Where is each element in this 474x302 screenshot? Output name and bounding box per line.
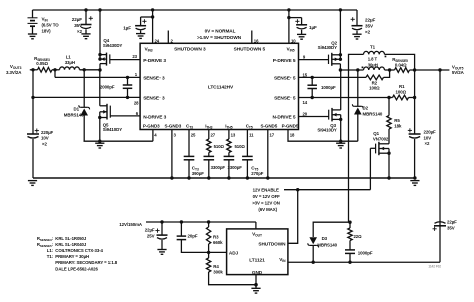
label 22uF 35V x2 right — [365, 18, 376, 35]
wire: ADJ — [209, 251, 227, 253]
label 220uF right — [424, 130, 437, 147]
wire: aux VIN rail — [288, 261, 440, 264]
wire: pin4 P-GND3 — [152, 130, 154, 142]
svg-text:35V: 35V — [447, 225, 455, 230]
svg-text:1000pF: 1000pF — [358, 251, 373, 256]
svg-text:1142 F02: 1142 F02 — [428, 264, 441, 268]
label R2 100 — [369, 81, 380, 91]
ground (rail right) — [410, 181, 419, 186]
svg-text:×2: ×2 — [42, 141, 47, 146]
label shutdown note — [197, 28, 242, 39]
capacitor 22uF input right — [351, 10, 363, 34]
svg-text:22µF: 22µF — [145, 228, 155, 233]
diode D1 MBRS140 — [79, 70, 90, 141]
resistor 510 ITH5 — [227, 130, 231, 157]
capacitor 1000pF sense — [307, 77, 317, 97]
label notes block — [37, 236, 118, 271]
wire: SHUTDOWN — [288, 190, 298, 244]
wire: RSENSE3 to L1 — [52, 68, 60, 71]
wire: VOUT3 riser / SENSE-3 — [31, 70, 140, 134]
label Q4 — [103, 38, 123, 48]
resistor R1 100 — [393, 95, 417, 100]
label 1000pF sense — [321, 85, 336, 90]
label Q2 — [318, 40, 338, 50]
svg-text:S-GND5: S-GND5 — [261, 123, 278, 128]
wire: Q4 drain to switch node — [98, 64, 101, 72]
capacitor 3300pF ITH3 — [204, 156, 215, 179]
svg-text:660k: 660k — [213, 240, 223, 245]
capacitor CT5 270pF — [242, 130, 253, 180]
wire: SENSE+3 — [55, 70, 140, 79]
label Q1 — [373, 131, 389, 141]
svg-text:25V: 25V — [147, 234, 155, 239]
label 510 ITH5 — [235, 144, 246, 149]
svg-text:22µF: 22µF — [365, 18, 376, 23]
ground (1uF left) — [136, 34, 145, 39]
svg-text:×2: ×2 — [425, 141, 430, 146]
capacitor 22uF 35V bottom — [433, 70, 447, 262]
label pin numbers left — [132, 54, 139, 116]
label 22uF 35V x2 — [72, 17, 83, 34]
svg-text:3300pF: 3300pF — [228, 165, 243, 170]
label 20pF — [188, 233, 198, 238]
svg-text:Q1: Q1 — [373, 131, 379, 136]
svg-text:L1: L1 — [66, 55, 72, 60]
svg-text:>3V = 12V ON: >3V = 12V ON — [252, 201, 280, 206]
label VOUT5 — [452, 64, 465, 75]
ground (Q3) — [336, 143, 345, 148]
svg-text:17: 17 — [270, 133, 275, 138]
svg-text:SENSE+ 5: SENSE+ 5 — [274, 76, 296, 82]
svg-text:14: 14 — [303, 100, 308, 105]
svg-text:18k: 18k — [394, 123, 402, 128]
wire: GND stub — [254, 275, 257, 289]
svg-text:DALE LPE-6562-A026: DALE LPE-6562-A026 — [55, 266, 98, 271]
resistor RSENSE3 0.05 — [38, 67, 53, 72]
label LT1121 pins — [229, 231, 286, 275]
svg-text:SHUTDOWN: SHUTDOWN — [258, 241, 286, 246]
svg-text:MBRS140: MBRS140 — [363, 111, 383, 116]
transistor Q5 Si9410DY — [98, 70, 140, 141]
svg-text:18: 18 — [290, 133, 295, 138]
capacitor 220uF VOUT5 — [408, 70, 421, 180]
wire: VOUT3 node — [30, 68, 38, 71]
label bottom pin names — [143, 123, 299, 129]
svg-text:3300pF: 3300pF — [211, 165, 226, 170]
label RSENSE5 — [392, 57, 408, 67]
svg-text:PRIMARY: SECONDARY = 1:1.8: PRIMARY: SECONDARY = 1:1.8 — [55, 260, 117, 265]
svg-text:S-GND3: S-GND3 — [165, 123, 182, 128]
svg-text:22µF: 22µF — [72, 17, 83, 22]
label R4 300k — [213, 264, 223, 275]
svg-text:SENSE– 5: SENSE– 5 — [274, 96, 296, 102]
svg-text:×2: ×2 — [77, 29, 83, 34]
svg-text:SHUTDOWN 3: SHUTDOWN 3 — [174, 47, 206, 53]
wire: signal ground rail — [33, 177, 415, 179]
svg-text:R4: R4 — [213, 264, 219, 269]
label 22 snubber — [354, 234, 363, 239]
label L1 — [65, 55, 75, 65]
svg-text:10: 10 — [291, 38, 296, 43]
svg-text:T1:: T1: — [47, 254, 54, 259]
svg-text:>1.5V = SHUTDOWN: >1.5V = SHUTDOWN — [197, 35, 242, 40]
ground (1uF right) — [297, 34, 306, 39]
wire: 12V enable — [284, 148, 370, 191]
svg-text:510Ω: 510Ω — [235, 144, 246, 149]
wire: SENSE-5 — [299, 96, 393, 99]
label right pin names — [272, 58, 295, 121]
svg-text:P-GND3: P-GND3 — [143, 123, 160, 128]
svg-text:1µF: 1µF — [309, 25, 317, 30]
svg-text:COILTRONICS CTX-33-4: COILTRONICS CTX-33-4 — [55, 248, 103, 253]
label 1uF left — [123, 25, 131, 30]
transistor Q1 VN7002 — [370, 142, 390, 180]
svg-text:35V: 35V — [74, 23, 83, 28]
wire: VIN to Q2 source — [339, 8, 342, 59]
capacitor 1uF right — [289, 18, 307, 35]
resistor R3 660k — [206, 222, 210, 254]
svg-text:KRL SL-1R050J: KRL SL-1R050J — [55, 236, 87, 241]
inductor L1 33uH — [60, 67, 80, 70]
label T1 — [368, 45, 378, 68]
wire: pin24 VIN3 stub — [151, 8, 154, 43]
svg-text:D1: D1 — [74, 107, 80, 112]
transistor Q2 Si9430DY — [299, 53, 343, 66]
wire: pin10 VIN5 stub — [287, 8, 290, 43]
resistor 510 ITH3 — [207, 130, 211, 157]
label 22uF 35V bottom — [447, 219, 457, 230]
resistor R4 300k — [206, 252, 257, 286]
diode D3 MBRS140 — [308, 221, 352, 263]
label CT3 390pF — [192, 165, 204, 176]
svg-text:KRL SL-1R040J: KRL SL-1R040J — [55, 242, 87, 247]
label CT5 270pF — [251, 165, 263, 176]
ground (22uF 25V) — [157, 250, 166, 255]
wire: pin17 S-GND5 — [266, 130, 269, 180]
label pin numbers right — [303, 55, 308, 117]
ground (22uF right) — [352, 34, 361, 39]
capacitor CT3 390pF — [184, 130, 195, 180]
svg-text:SHUTDOWN 5: SHUTDOWN 5 — [234, 47, 266, 53]
svg-text:(6V MAX): (6V MAX) — [258, 207, 277, 212]
ground (battery) — [28, 34, 37, 39]
svg-text:100Ω: 100Ω — [369, 86, 380, 91]
capacitor 1uF left — [135, 17, 153, 34]
svg-text:15: 15 — [303, 72, 308, 77]
svg-text:P-DRIVE 3: P-DRIVE 3 — [143, 58, 166, 64]
label Q3 — [317, 123, 337, 133]
label 3300pF ITH3 — [211, 165, 226, 170]
ground (22uF input) — [81, 34, 90, 39]
capacitor 1000pF snubber — [345, 250, 355, 262]
capacitor 220uF VOUT3 — [27, 129, 39, 179]
label R1 100 — [396, 84, 407, 94]
transformer T1 primary — [362, 67, 385, 71]
svg-text:27: 27 — [211, 133, 216, 138]
capacitor 22uF input left — [81, 8, 93, 34]
svg-text:VN7002: VN7002 — [373, 137, 389, 142]
svg-text:R3: R3 — [213, 235, 219, 240]
wire: L1 to switch node — [80, 68, 101, 71]
capacitor 22uF 25V — [155, 222, 167, 250]
svg-text:30µH: 30µH — [368, 62, 378, 67]
battery VIN — [28, 10, 38, 34]
wire: VIN to Q4 source — [98, 8, 101, 59]
svg-text:LTC1142HV: LTC1142HV — [208, 84, 234, 90]
svg-text:SENSE– 3: SENSE– 3 — [143, 96, 165, 102]
label left pin names — [143, 58, 166, 121]
svg-text:T1: T1 — [370, 45, 376, 50]
svg-text:0.05Ω: 0.05Ω — [36, 61, 48, 66]
svg-text:20: 20 — [303, 112, 308, 117]
wire: pin18 P-GND5 — [288, 130, 358, 143]
wire: 12V rail — [146, 220, 256, 229]
svg-text:L1:: L1: — [47, 248, 54, 253]
svg-text:0V = NORMAL: 0V = NORMAL — [205, 28, 236, 33]
svg-text:100Ω: 100Ω — [396, 89, 407, 94]
label LTC1142HV — [208, 84, 234, 90]
svg-text:GND: GND — [252, 270, 263, 275]
svg-text:25: 25 — [191, 133, 196, 138]
op-amp U2 LT1121 box — [227, 229, 288, 275]
label VOUT3 — [6, 64, 22, 75]
resistor R5 18k — [387, 98, 391, 144]
svg-text:12V/150mA: 12V/150mA — [119, 222, 143, 227]
label top pin names — [145, 47, 295, 53]
wire: power ground rail 3.3V — [84, 140, 153, 143]
svg-text:510Ω: 510Ω — [214, 144, 225, 149]
svg-text:1.8 T: 1.8 T — [368, 57, 378, 62]
svg-text:10V: 10V — [424, 135, 432, 140]
wire: Q2 drain to switch node 5V — [339, 64, 342, 72]
label D1 — [64, 107, 84, 118]
svg-text:P-GND5: P-GND5 — [282, 123, 299, 128]
capacitor 2000pF — [123, 77, 133, 97]
diode D2 MBRS140 — [352, 70, 363, 141]
ground (LT1121) — [251, 288, 260, 293]
svg-text:Si9430DY: Si9430DY — [318, 45, 338, 50]
label 510 ITH3 — [214, 144, 225, 149]
capacitor 20pF — [177, 222, 209, 252]
svg-text:R5: R5 — [394, 118, 400, 123]
svg-text:D2: D2 — [363, 106, 369, 111]
svg-text:3.3V/2A: 3.3V/2A — [6, 70, 22, 75]
svg-text:Si9430DY: Si9430DY — [103, 43, 123, 48]
svg-text:33µH: 33µH — [65, 60, 75, 65]
svg-text:SENSE+ 3: SENSE+ 3 — [143, 76, 165, 82]
label R5 18k — [394, 118, 402, 128]
capacitor 3300pF ITH5 — [224, 156, 235, 179]
resistor 22 snubber — [348, 222, 352, 250]
svg-text:220µF: 220µF — [424, 130, 437, 135]
label 2000pF — [100, 85, 115, 90]
svg-text:ADJ: ADJ — [229, 250, 239, 255]
transistor Q3 Si9410DY — [299, 70, 343, 141]
svg-text:×2: ×2 — [365, 30, 371, 35]
svg-text:0V = 12V OFF: 0V = 12V OFF — [253, 194, 281, 199]
wire: switch node to T1 — [340, 68, 363, 71]
wire: pin2 SHUTDOWN3 stub — [167, 31, 169, 44]
label RSENSE3 — [34, 56, 50, 66]
label 1uF right — [309, 25, 317, 30]
svg-text:2000pF: 2000pF — [100, 85, 115, 90]
svg-text:13: 13 — [231, 133, 236, 138]
wire: SENSE+5 / resistor R2 — [299, 70, 390, 80]
svg-text:22µF: 22µF — [447, 219, 457, 224]
wire: pin16 SHUTDOWN5 stub — [251, 31, 253, 44]
label 12V output — [119, 222, 143, 227]
svg-text:Si9410DY: Si9410DY — [103, 127, 123, 132]
svg-text:220µF: 220µF — [41, 130, 54, 135]
svg-text:N-DRIVE 5: N-DRIVE 5 — [272, 115, 295, 121]
label D2 — [363, 106, 383, 117]
svg-text:16: 16 — [254, 38, 259, 43]
svg-text:35V: 35V — [365, 24, 374, 29]
svg-text:18V): 18V) — [42, 28, 52, 33]
svg-text:MBRS140: MBRS140 — [64, 112, 84, 117]
label 22uF 25V — [145, 228, 155, 239]
svg-text:LT1121: LT1121 — [249, 258, 265, 264]
label 3300pF ITH5 — [228, 165, 243, 170]
svg-text:Si9410DY: Si9410DY — [317, 128, 337, 133]
svg-text:300k: 300k — [213, 270, 223, 275]
resistor RSENSE5 0.04 — [395, 68, 410, 73]
label R3 660k — [213, 235, 223, 246]
transistor Q4 Si9430DY — [98, 53, 140, 66]
svg-text:N-DRIVE 3: N-DRIVE 3 — [143, 115, 166, 121]
svg-text:1000pF: 1000pF — [321, 85, 336, 90]
wire: VIN top rail — [33, 9, 358, 11]
ground (rail left) — [28, 181, 37, 186]
wire: T1 to RSENSE5 — [385, 68, 395, 71]
svg-text:(6.5V TO: (6.5V TO — [42, 23, 60, 28]
svg-text:P-DRIVE 5: P-DRIVE 5 — [273, 58, 296, 64]
svg-text:MBRS140: MBRS140 — [317, 242, 337, 247]
svg-text:24: 24 — [155, 38, 160, 43]
label Q5 — [103, 123, 123, 133]
svg-text:12V ENABLE: 12V ENABLE — [253, 188, 279, 193]
op-amp U1 LTC1142HV box — [140, 43, 298, 129]
label 1000pF snubber — [358, 251, 373, 256]
wire: pin3 S-GND3 — [170, 130, 173, 180]
svg-text:28: 28 — [134, 100, 139, 105]
svg-text:11: 11 — [249, 133, 254, 138]
label pin numbers bottom — [154, 133, 295, 138]
svg-text:22Ω: 22Ω — [354, 234, 363, 239]
svg-text:5V/2A: 5V/2A — [452, 70, 465, 75]
ground (Q5) — [95, 143, 104, 148]
label fig number — [428, 264, 441, 268]
wire: RSENSE5 to VOUT5 — [410, 68, 450, 71]
label 12V enable — [252, 188, 280, 213]
label 220uF 10V x2 left — [41, 130, 54, 147]
svg-text:23: 23 — [132, 54, 137, 59]
label D3 — [317, 236, 337, 247]
label pin numbers top — [155, 38, 297, 43]
svg-text:390pF: 390pF — [192, 171, 204, 176]
label VIN — [42, 17, 60, 34]
svg-text:1µF: 1µF — [123, 25, 131, 30]
svg-text:0.04Ω: 0.04Ω — [395, 62, 407, 67]
svg-text:PRIMARY = 30µH: PRIMARY = 30µH — [55, 254, 89, 259]
svg-text:20pF: 20pF — [188, 233, 198, 238]
svg-text:10V: 10V — [41, 136, 49, 141]
transformer T1 secondary — [349, 51, 415, 222]
svg-text:D3: D3 — [322, 236, 328, 241]
svg-text:270pF: 270pF — [251, 171, 263, 176]
